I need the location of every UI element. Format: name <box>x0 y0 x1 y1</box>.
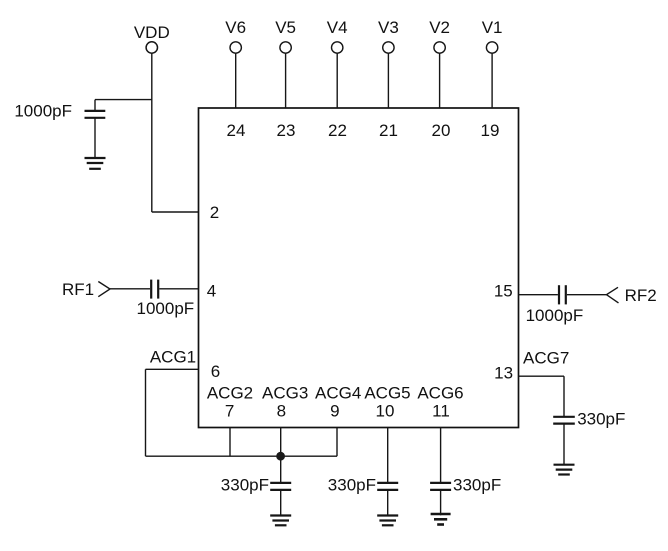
svg-text:ACG1: ACG1 <box>150 348 196 367</box>
svg-text:ACG6: ACG6 <box>417 384 463 403</box>
svg-text:V3: V3 <box>378 18 399 37</box>
node RF1 input chevron <box>98 282 110 297</box>
svg-text:15: 15 <box>494 282 513 301</box>
wire V1 to pin 19 <box>491 53 493 108</box>
svg-text:ACG5: ACG5 <box>364 384 410 403</box>
wire C7 bottom lead <box>563 424 565 465</box>
wire pin 15 to C6 <box>519 294 558 296</box>
svg-text:7: 7 <box>225 402 234 421</box>
svg-text:23: 23 <box>277 121 296 140</box>
svg-text:330pF: 330pF <box>221 476 269 495</box>
svg-text:330pF: 330pF <box>453 476 501 495</box>
svg-text:1000pF: 1000pF <box>137 299 195 318</box>
ground below C5 <box>431 514 451 525</box>
svg-text:V4: V4 <box>327 18 348 37</box>
wire C3 bottom lead <box>280 490 282 515</box>
svg-text:ACG2: ACG2 <box>207 384 253 403</box>
wire pin 7 stub <box>229 428 231 457</box>
svg-text:19: 19 <box>481 121 500 140</box>
node RF2 output chevron <box>607 287 619 303</box>
svg-text:2: 2 <box>210 203 219 222</box>
wire pin 9 stub <box>336 428 338 457</box>
svg-text:V1: V1 <box>482 18 503 37</box>
node V2 terminal <box>434 42 445 53</box>
wire C1 bottom lead <box>94 118 96 158</box>
svg-text:8: 8 <box>277 402 286 421</box>
node V5 terminal <box>280 42 291 53</box>
svg-text:13: 13 <box>494 364 513 383</box>
svg-text:V2: V2 <box>429 18 450 37</box>
wire V3 to pin 21 <box>387 53 389 108</box>
svg-text:24: 24 <box>227 121 246 140</box>
op-amp U1 (IC body rectangle) <box>199 108 519 428</box>
svg-text:10: 10 <box>376 402 395 421</box>
capacitor C6 plates <box>559 285 566 304</box>
wire C6 to RF2 chevron <box>567 294 607 296</box>
svg-text:20: 20 <box>432 121 451 140</box>
ground below C7 <box>554 465 575 475</box>
wire V5 to pin 23 <box>285 53 287 108</box>
svg-text:RF1: RF1 <box>62 280 94 299</box>
wire ACG1 vertical <box>145 369 147 456</box>
ground below C3 <box>270 516 291 526</box>
node V4 terminal <box>332 42 343 53</box>
svg-text:6: 6 <box>211 362 220 381</box>
svg-text:4: 4 <box>207 282 216 301</box>
ground below C4 <box>377 516 398 526</box>
wire pin 10 lead <box>387 428 389 483</box>
wire pin 11 lead <box>440 428 442 483</box>
svg-text:V5: V5 <box>275 18 296 37</box>
svg-text:330pF: 330pF <box>328 476 376 495</box>
svg-text:VDD: VDD <box>134 23 170 42</box>
wire C1 top lead <box>94 100 96 111</box>
svg-text:1000pF: 1000pF <box>14 102 72 121</box>
wire C5 bottom lead <box>440 490 442 515</box>
svg-text:ACG4: ACG4 <box>315 384 361 403</box>
capacitor C7 plates (330pF at pin 13) <box>553 417 575 424</box>
ground below C1 <box>85 158 106 169</box>
capacitor C1 plates <box>85 111 106 118</box>
node V1 terminal <box>486 42 497 53</box>
wire ACG7 vertical to C7 <box>563 376 565 417</box>
wire pin 13 horizontal <box>519 375 565 377</box>
svg-text:ACG7: ACG7 <box>523 349 569 368</box>
svg-text:ACG3: ACG3 <box>262 384 308 403</box>
svg-text:9: 9 <box>330 402 339 421</box>
node V3 terminal <box>383 42 394 53</box>
wire RF1 to C2 <box>110 288 150 290</box>
wire pin 2 horizontal <box>152 211 199 213</box>
svg-text:1000pF: 1000pF <box>526 306 584 325</box>
wire C2 to pin 4 <box>159 288 198 290</box>
wire ACG1 bottom bus <box>146 455 338 457</box>
wire VDD vertical to pin 2 <box>151 53 153 212</box>
capacitor C4 plates (330pF at pin 10) <box>377 483 398 490</box>
wire V2 to pin 20 <box>439 53 441 108</box>
capacitor C5 plates (330pF at pin 11) <box>430 483 451 490</box>
wire VDD to C1 <box>95 99 152 101</box>
node VDD terminal <box>146 42 157 53</box>
capacitor C3 plates (330pF at pin 8) <box>270 483 291 490</box>
junction dot on ACG1 bus at pin 8 <box>276 452 285 461</box>
svg-text:21: 21 <box>379 121 398 140</box>
capacitor C2 plates <box>151 280 158 299</box>
wire pin 8 stub <box>280 428 282 483</box>
svg-text:330pF: 330pF <box>577 410 625 429</box>
svg-text:V6: V6 <box>225 18 246 37</box>
wire V6 to pin 24 <box>235 53 237 108</box>
svg-text:RF2: RF2 <box>625 286 657 305</box>
wire pin 6 horizontal <box>146 368 199 370</box>
node V6 terminal <box>230 42 241 53</box>
svg-text:11: 11 <box>432 402 450 421</box>
wire C4 bottom lead <box>387 490 389 515</box>
wire V4 to pin 22 <box>336 53 338 108</box>
svg-text:22: 22 <box>328 121 347 140</box>
